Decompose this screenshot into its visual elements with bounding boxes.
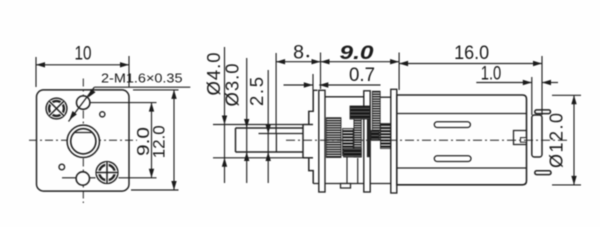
screw head upper-left	[46, 98, 67, 119]
svg-text:Ø3.0: Ø3.0	[222, 64, 243, 107]
dim 9.0 (gearbox length, bold italic)	[321, 42, 400, 90]
dim 10 (faceplate width)	[36, 43, 129, 88]
motor can crimp line bottom	[397, 167, 527, 169]
gear lower dark band	[344, 149, 362, 158]
dim 9.0 (hole spacing, left view)	[62, 103, 157, 178]
gear axle block under tall gear	[371, 131, 379, 141]
svg-text:2.5: 2.5	[246, 77, 267, 106]
svg-text:1.0: 1.0	[481, 64, 502, 85]
svg-text:12.0: 12.0	[150, 125, 169, 158]
motor body slot upper	[434, 122, 470, 128]
gearbox front face stepped profile	[309, 90, 313, 183]
small pilot hole upper-right	[100, 112, 105, 117]
gear stage 3 tall gear	[372, 91, 380, 140]
tapped hole M1.6 bottom	[76, 172, 89, 185]
svg-text:9.0: 9.0	[340, 42, 374, 64]
dim 2.5 (across flat)	[246, 70, 271, 183]
vertical centerline of faceplate	[82, 79, 84, 204]
svg-text:2-M1.6×0.35: 2-M1.6×0.35	[101, 71, 183, 86]
gear axle bar behind plate P2	[367, 119, 370, 157]
motor face plate P3	[391, 89, 397, 193]
output shaft bore (inner circle)	[71, 129, 96, 154]
bearing recess notch at motor rear	[514, 131, 527, 145]
gear stage 2 column	[354, 119, 361, 158]
tapped hole M1.6 top	[77, 96, 90, 109]
gearbox plate P2	[364, 91, 370, 192]
rear shaft tip	[521, 138, 527, 143]
label 2-M1.6x0.35 with leader	[69, 71, 191, 122]
extension line at gearbox face for dim 0.7	[312, 74, 314, 90]
gear stage 1 wheel	[326, 118, 341, 158]
gear stage 1 pinion	[343, 129, 354, 156]
svg-text:16.0: 16.0	[454, 42, 489, 64]
dim 12.0 (faceplate height)	[131, 90, 179, 190]
svg-text:8: 8	[293, 42, 304, 64]
dim 1.0 (end cap)	[476, 64, 558, 116]
gearbox case bottom edge	[313, 183, 392, 185]
dim dia 12.0 (motor diameter)	[547, 95, 582, 185]
motor body	[397, 95, 527, 185]
gear axle lower middle	[357, 158, 359, 184]
output shaft boss (outer circle)	[67, 125, 99, 157]
terminal pin bottom	[535, 171, 551, 175]
shaft D-flat chord	[75, 132, 93, 134]
screw head lower-right	[96, 162, 118, 184]
gearbox case top edge	[313, 90, 391, 97]
dim 16.0 (motor length)	[399, 42, 542, 115]
gear top dark block	[350, 106, 370, 119]
dim 8 (shaft flat length)	[276, 42, 320, 134]
gearbox faceplate (front view)	[37, 90, 130, 191]
shaft flat (milled face)	[259, 134, 304, 153]
dim 0.7 (front plate lip)	[284, 65, 381, 88]
gearbox bottom tab	[341, 184, 351, 189]
motor pinion gear	[381, 124, 391, 149]
output shaft (side view)	[236, 128, 304, 152]
gearbox plate P1	[319, 90, 325, 192]
dim dia 3.0 (shaft)	[222, 58, 250, 183]
bearing boss on gearbox face	[303, 125, 313, 158]
main axis centerline (side view)	[286, 139, 568, 141]
horizontal centerline of faceplate	[29, 139, 137, 141]
svg-text:Ø12.0: Ø12.0	[547, 113, 567, 168]
dim dia 4.0 (bearing boss)	[203, 47, 303, 183]
gear axle lower left	[346, 157, 348, 184]
svg-text:0.7: 0.7	[349, 65, 375, 86]
motor can crimp line top	[397, 113, 527, 115]
small pilot hole lower-left	[59, 164, 65, 170]
rear end cap	[532, 115, 542, 157]
terminal pin top	[535, 110, 551, 114]
motor body slot lower	[434, 156, 471, 162]
svg-text:10: 10	[75, 43, 92, 65]
